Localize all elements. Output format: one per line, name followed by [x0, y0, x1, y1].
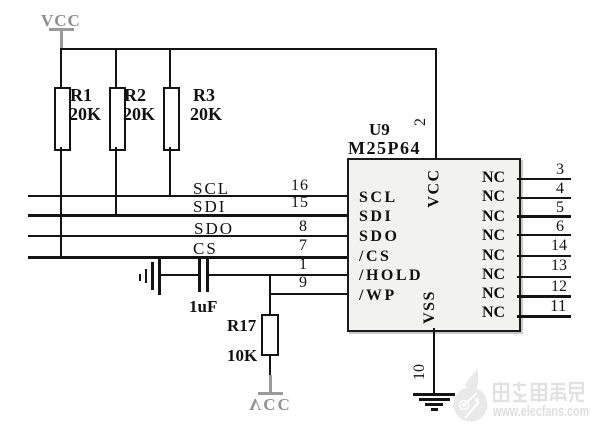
pin 15	[291, 195, 309, 211]
resistor R1	[54, 87, 71, 151]
pin /WP label	[359, 288, 397, 304]
node CS wire	[28, 256, 348, 259]
node SCL wire	[28, 195, 348, 197]
pin SDI label	[359, 209, 393, 225]
pin VCC label (rotated)	[427, 168, 443, 207]
pin 1	[299, 257, 307, 273]
pin 7	[299, 238, 307, 254]
pin NC 13	[482, 267, 505, 283]
watermark logo	[440, 360, 600, 427]
pin NC 12	[482, 286, 505, 302]
watermark chinese text	[493, 381, 584, 403]
ground (left, sideways)	[158, 259, 161, 295]
wire: ground to capacitor	[160, 274, 199, 276]
pin NC 4	[482, 189, 505, 205]
wire: R3 to SCL net	[169, 147, 171, 197]
resistor R2	[109, 87, 126, 151]
node /HOLD wire (pin 1)	[209, 274, 348, 276]
pin 16	[291, 178, 309, 194]
watermark url	[493, 404, 589, 419]
node SDO wire	[28, 235, 348, 237]
pin SCL label	[359, 190, 398, 206]
power VCC (top)	[41, 12, 81, 29]
pin /HOLD label	[359, 268, 423, 284]
node SDI wire	[28, 214, 348, 217]
pin NC 3	[482, 170, 505, 186]
power VCC (bottom, inverted)	[269, 375, 272, 393]
wire: drop to R1	[60, 48, 62, 89]
pin NC 14	[482, 248, 505, 264]
resistor R17	[261, 314, 279, 356]
node /WP wire (pin 9)	[269, 293, 348, 295]
resistor R3	[163, 87, 180, 151]
op IC U9 M25P64 box	[347, 158, 521, 332]
pin NC 11	[482, 305, 505, 321]
wire: R17 lead down	[269, 354, 271, 375]
wire: R2 to SDI net	[115, 147, 117, 217]
wire: R1 to CS net	[60, 147, 62, 258]
pin VSS label (rotated)	[422, 290, 438, 324]
ground (bottom)	[413, 393, 455, 396]
pin 10 wire	[433, 328, 435, 394]
pin NC 5	[482, 209, 505, 225]
pin /CS label	[359, 249, 391, 265]
wire: drop to R3	[169, 48, 171, 89]
pin 9	[299, 275, 307, 291]
pin SDO label	[359, 229, 399, 245]
capacitor C1 1uF	[198, 259, 201, 292]
pin 8	[299, 219, 307, 235]
wire: junction down to R17	[269, 274, 271, 315]
pin NC 6	[482, 228, 505, 244]
wire: drop to R2	[115, 48, 117, 89]
wire: drop to pin 2	[435, 48, 437, 158]
pin 2	[413, 118, 429, 126]
wire: top VCC rail	[60, 48, 437, 50]
